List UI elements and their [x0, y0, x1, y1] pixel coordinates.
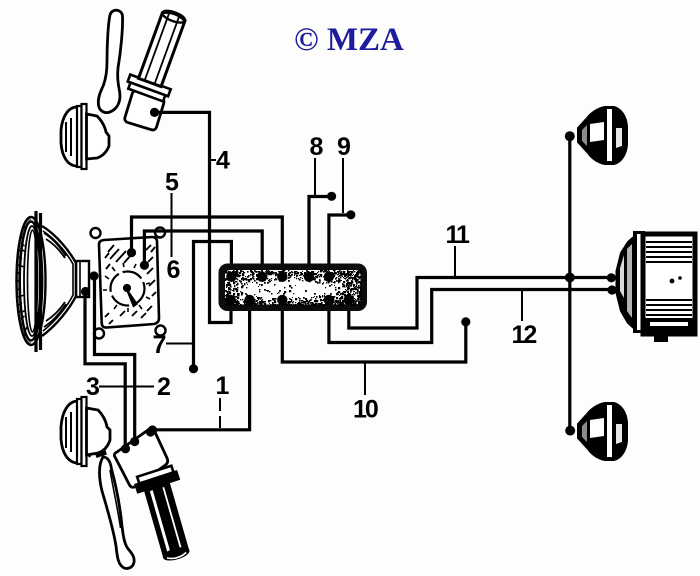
svg-text:7: 7 — [153, 331, 167, 359]
svg-text:1: 1 — [216, 372, 230, 400]
node wire8 end — [327, 192, 336, 201]
node clutch lever terminal b — [130, 437, 139, 446]
node wire9 end — [346, 210, 355, 219]
switch mounting ears — [91, 228, 101, 238]
bulb holder top right — [578, 107, 627, 164]
node tail lamp terminal 11 — [607, 273, 616, 282]
switch rotary dial — [111, 272, 145, 306]
wire 7 : terminal strip to connector end — [194, 242, 232, 366]
wire 8 : terminal strip to connector end — [309, 197, 328, 273]
leader label 8 — [314, 158, 316, 195]
node clutch lever terminal a — [121, 444, 130, 453]
node wire7 end — [189, 364, 198, 373]
switch dial lever — [126, 288, 137, 307]
terminal strip contacts bottom row — [225, 295, 354, 305]
light switch plate — [91, 228, 166, 339]
grip body — [139, 8, 187, 86]
svg-text:4: 4 — [216, 147, 230, 175]
node switch terminal 6 — [140, 261, 149, 270]
clutch lever assembly bottom — [88, 429, 189, 569]
wire 4 : brake lever switch to terminal strip — [158, 112, 231, 322]
wire : bulb holder to bulb holder vertical — [568, 139, 571, 427]
terminal strip contacts top row — [226, 272, 334, 282]
headlamp lens bars — [34, 211, 37, 352]
clamp hook — [88, 441, 106, 457]
parking lamp top left — [61, 104, 109, 169]
switch housing — [124, 90, 165, 131]
svg-text:2: 2 — [157, 373, 171, 401]
bulb holder bottom right — [578, 403, 627, 460]
svg-text:© MZA: © MZA — [294, 22, 404, 58]
leader label 5 and label 6 — [171, 193, 173, 257]
svg-text:6: 6 — [167, 256, 181, 284]
leader label 12 — [521, 291, 523, 321]
headlamp — [15, 211, 89, 352]
node switch terminal 5 — [127, 248, 136, 257]
lever blade — [99, 457, 134, 568]
node bulb holder top — [565, 131, 575, 141]
node wire10 end — [461, 317, 470, 326]
switch housing — [114, 429, 167, 488]
svg-text:9: 9 — [337, 133, 351, 161]
node brake lever terminal — [150, 108, 159, 117]
svg-text:12: 12 — [512, 321, 537, 349]
leader label 1 — [219, 398, 221, 428]
headlamp rim rings — [17, 217, 46, 345]
perch flange — [133, 465, 179, 493]
svg-text:11: 11 — [446, 221, 471, 249]
wire 9 : terminal strip to connector end — [329, 215, 347, 272]
lever blade — [98, 10, 122, 112]
wire 6 : switch to terminal strip — [144, 231, 262, 272]
wire 3 : headlamp to clutch lever — [85, 295, 125, 445]
leader label 10 — [364, 363, 366, 395]
parking lamp bottom left — [61, 397, 110, 466]
switch plate body — [99, 237, 159, 328]
grip body dark — [145, 484, 189, 562]
lamp body — [643, 234, 695, 334]
svg-text:8: 8 — [310, 133, 324, 161]
wire 10 : terminal strip to connector end — [282, 304, 466, 362]
back plate — [633, 231, 645, 333]
leader labels 3-2 — [99, 386, 154, 388]
wire 2 : headlamp to clutch lever — [95, 279, 135, 438]
leader label 4 — [210, 159, 217, 161]
node bulb holder bottom — [565, 426, 575, 436]
wire 11 : terminal strip to tail lamp — [349, 278, 607, 329]
node headlamp terminal B — [81, 287, 90, 296]
svg-text:3: 3 — [86, 373, 100, 401]
node clutch lever terminal c — [146, 427, 155, 436]
leader lines for labels — [99, 158, 522, 428]
lever perch flange — [125, 75, 170, 103]
mounting cone — [617, 235, 637, 330]
svg-text:5: 5 — [165, 169, 179, 197]
headlamp reflector cone — [42, 226, 76, 336]
connector end dots — [81, 108, 617, 454]
leader label 11 — [454, 246, 456, 276]
leader label 9 — [342, 158, 344, 213]
node headlamp terminal A — [89, 271, 98, 280]
terminal strip — [219, 264, 368, 312]
wire 5 : switch to terminal strip — [132, 217, 283, 272]
node wire1 end — [148, 425, 157, 434]
node tail lamp terminal 12 — [607, 285, 616, 294]
brake lever assembly top — [98, 8, 186, 131]
leader label 7 — [166, 343, 192, 345]
headlamp bulb socket — [76, 261, 89, 297]
svg-text:10: 10 — [353, 396, 378, 424]
wire 1 : terminal strip to clutch lever switch — [156, 304, 250, 430]
tail lamp — [617, 231, 696, 342]
wire 12 : terminal strip to tail lamp — [329, 290, 608, 343]
node junction wire11 bulb wire — [565, 273, 575, 283]
